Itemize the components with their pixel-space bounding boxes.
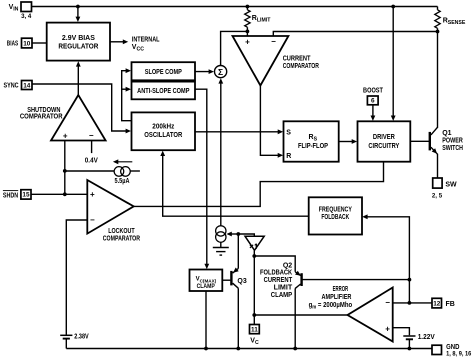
svg-text:11: 11: [251, 326, 258, 333]
svg-text:3, 4: 3, 4: [21, 13, 32, 20]
svg-text:POWER: POWER: [442, 138, 463, 145]
svg-text:COMPARATOR: COMPARATOR: [283, 63, 319, 70]
svg-text:OSCILLATOR: OSCILLATOR: [144, 132, 182, 139]
svg-text:6: 6: [371, 98, 375, 105]
svg-text:BIAS: BIAS: [7, 41, 19, 48]
svg-text:+: +: [90, 190, 95, 199]
svg-text:R: R: [286, 153, 291, 160]
svg-text:CLAMP: CLAMP: [197, 284, 215, 290]
svg-text:Q3: Q3: [237, 278, 246, 285]
svg-text:−: −: [385, 298, 390, 307]
svg-text:−: −: [89, 131, 94, 140]
svg-text:LIMIT: LIMIT: [274, 285, 293, 292]
svg-text:CIRCUITRY: CIRCUITRY: [368, 143, 399, 150]
svg-text:2.38V: 2.38V: [74, 333, 89, 340]
svg-text:15: 15: [22, 192, 30, 199]
svg-text:CLAMP: CLAMP: [271, 292, 293, 299]
svg-text:FOLDBACK: FOLDBACK: [260, 270, 292, 277]
svg-text:Σ: Σ: [218, 67, 223, 77]
svg-text:SYNC: SYNC: [3, 82, 18, 89]
svg-text:+: +: [245, 38, 250, 47]
svg-text:5.5µA: 5.5µA: [115, 178, 130, 185]
svg-text:AMPLIFIER: AMPLIFIER: [322, 294, 352, 301]
svg-text:DRIVER: DRIVER: [373, 134, 395, 141]
svg-text:S: S: [286, 129, 291, 136]
svg-text:14: 14: [23, 82, 31, 89]
svg-text:CURRENT: CURRENT: [264, 277, 293, 284]
svg-text:−: −: [271, 37, 276, 46]
svg-text:Q1: Q1: [442, 130, 451, 137]
svg-text:SHDN: SHDN: [3, 193, 18, 200]
svg-text:FOLDBACK: FOLDBACK: [321, 214, 349, 221]
svg-text:200kHz: 200kHz: [152, 123, 174, 130]
svg-text:0.4V: 0.4V: [85, 157, 98, 164]
svg-text:CURRENT: CURRENT: [283, 56, 311, 63]
svg-text:SLOPE COMP: SLOPE COMP: [145, 69, 182, 76]
svg-text:FREQUENCY: FREQUENCY: [319, 206, 352, 213]
svg-text:10: 10: [23, 40, 31, 47]
svg-text:LOCKOUT: LOCKOUT: [108, 228, 135, 235]
svg-text:INTERNAL: INTERNAL: [132, 37, 160, 44]
svg-text:1, 8, 9, 16: 1, 8, 9, 16: [446, 350, 471, 357]
svg-text:+: +: [385, 324, 390, 333]
svg-text:SW: SW: [445, 182, 457, 189]
svg-text:Q2: Q2: [283, 262, 292, 269]
svg-text:BOOST: BOOST: [363, 88, 383, 95]
svg-text:FLIP-FLOP: FLIP-FLOP: [298, 143, 328, 150]
svg-text:COMPARATOR: COMPARATOR: [20, 114, 63, 121]
svg-text:SWITCH: SWITCH: [442, 145, 463, 152]
svg-text:12: 12: [433, 300, 441, 307]
svg-text:1.22V: 1.22V: [418, 334, 435, 341]
svg-text:VC(MAX): VC(MAX): [196, 277, 217, 284]
svg-text:−: −: [90, 216, 95, 225]
svg-text:+: +: [63, 131, 68, 140]
svg-text:2.9V BIAS: 2.9V BIAS: [62, 35, 95, 42]
svg-text:REGULATOR: REGULATOR: [58, 44, 98, 51]
svg-text:FB: FB: [446, 301, 455, 308]
svg-text:ERROR: ERROR: [333, 286, 349, 293]
svg-text:2, 5: 2, 5: [432, 193, 443, 200]
svg-text:ANTI-SLOPE COMP: ANTI-SLOPE COMP: [137, 88, 190, 95]
svg-text:COMPARATOR: COMPARATOR: [103, 235, 140, 242]
